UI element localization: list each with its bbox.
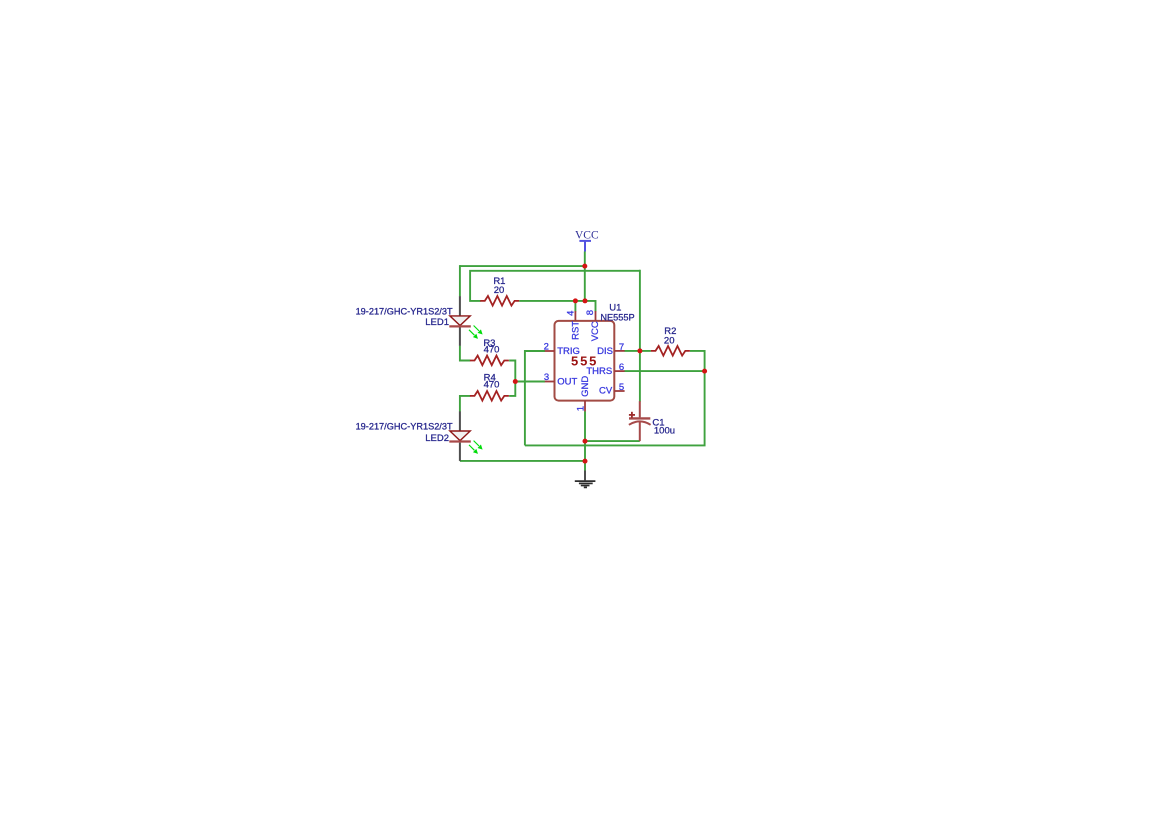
wire R1 left to DIS rail [470,271,640,301]
pin 1 GND stub [584,401,586,412]
svg-text:7: 7 [619,342,624,353]
C1 plus sign [629,414,635,416]
svg-text:6: 6 [619,362,624,373]
svg-text:2: 2 [544,342,549,353]
svg-text:TRIG: TRIG [557,346,580,357]
wire DIS rail down to C1 top [639,270,641,402]
svg-text:4: 4 [566,311,577,316]
pin 2 TRIG stub [545,350,555,352]
wire GND pin down to ground [584,411,586,471]
svg-text:100u: 100u [654,426,675,437]
svg-text:DIS: DIS [597,346,613,357]
LED2 [449,411,481,461]
pin 7 DIS stub [614,350,624,352]
wire DIS pin to R2 left [624,350,651,352]
svg-text:VCC: VCC [590,321,601,341]
pin 6 THRS stub [614,370,624,372]
resistor R1 [480,296,519,306]
wire LED1 cathode to R3 left [460,346,470,361]
svg-text:20: 20 [494,285,505,296]
wire C1 bottom to GND rail [585,440,640,442]
svg-text:19-217/GHC-YR1S2/3T: 19-217/GHC-YR1S2/3T [356,306,453,316]
IC U1 NE555P body [555,321,615,401]
svg-text:470: 470 [484,379,500,390]
wire LED2 cathode to GND rail [460,460,585,462]
junction THRS node [702,369,707,374]
LED1 [449,296,481,346]
svg-text:OUT: OUT [557,377,577,388]
resistor R4 [470,391,509,401]
resistor R3 [470,356,509,366]
VCC supply symbol [579,241,591,252]
wire VCC to LED1 anode [459,265,461,296]
svg-text:LED2: LED2 [425,433,449,444]
wire OUT junction to pin 3 [515,381,545,383]
svg-text:LED1: LED1 [425,317,449,328]
wire R1 right to pins 4/8 [519,301,595,312]
LED2 emission arrows [469,441,482,453]
svg-text:20: 20 [664,336,675,347]
svg-text:NE555P: NE555P [600,312,634,322]
svg-text:GND: GND [580,376,591,397]
pin 4 RST stub [574,311,576,321]
junction VCC top [582,264,587,269]
svg-text:THRS: THRS [586,366,612,377]
svg-text:470: 470 [484,344,500,355]
svg-text:CV: CV [599,386,613,397]
junction pin 8 riser [583,298,588,303]
pin 5 CV stub [614,390,624,392]
pin 8 VCC stub [595,311,597,321]
svg-text:3: 3 [544,372,549,383]
wire R3 right down to OUT junction [509,361,515,396]
junction DIS node [637,348,642,353]
LED1 emission arrows [469,326,482,338]
junction C1-GND [583,439,588,444]
pin 3 OUT stub [545,381,555,383]
svg-text:19-217/GHC-YR1S2/3T: 19-217/GHC-YR1S2/3T [356,421,453,431]
resistor R2 [651,346,690,356]
wire THRS pin to junction [624,370,704,372]
wire VCC horizontal top [460,265,585,267]
wire TRIG pin down [525,351,545,445]
ground [575,471,596,488]
svg-text:1: 1 [575,406,586,411]
wire R4 left to LED2 anode [460,396,470,412]
junction OUT node [513,379,518,384]
wire VCC symbol stem to junction [584,252,586,301]
wire R2 right down to TRIG bottom rail [525,351,705,446]
svg-text:RST: RST [570,321,581,340]
junction LED2-GND [583,459,588,464]
svg-text:5: 5 [619,382,624,393]
junction pin 4 [573,298,578,303]
svg-text:8: 8 [585,310,596,315]
svg-text:VCC: VCC [575,230,599,242]
wire pin4 drop [574,301,576,312]
capacitor C1 [629,401,651,441]
